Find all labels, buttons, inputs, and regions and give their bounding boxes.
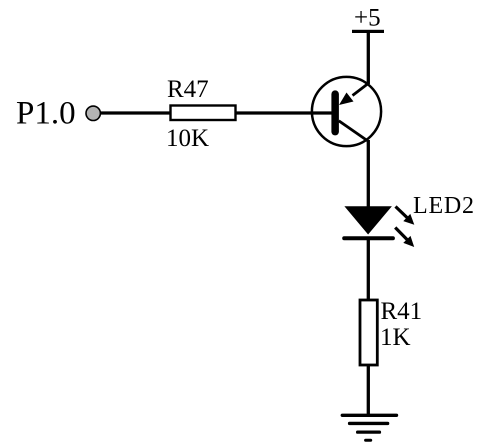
LED2 anode triangle [344, 206, 392, 234]
value 1K [380, 324, 411, 351]
value 10K [166, 125, 209, 152]
transistor Q1 base bar [331, 90, 339, 135]
wire R47 to Q1 base [236, 111, 332, 114]
wire LED2 to R41 [367, 240, 370, 300]
svg-text:LED2: LED2 [413, 193, 475, 219]
power label +5 [354, 5, 381, 32]
transistor Q1 body circle [312, 77, 381, 146]
wire P1.0 to R47 [101, 111, 172, 114]
transistor Q1 emitter line with PNP arrow [339, 83, 369, 105]
resistor R41 [360, 300, 377, 365]
wire R41 to ground [367, 365, 370, 415]
LED2 cathode bar [342, 236, 395, 240]
svg-text:1K: 1K [380, 324, 411, 351]
transistor Q1 collector line [339, 121, 369, 142]
ground [341, 414, 399, 442]
resistor R47 [171, 106, 236, 121]
wire +5 to Q1 emitter [367, 31, 370, 84]
node label P1.0 [16, 96, 76, 132]
wire Q1 collector to LED2 [367, 140, 370, 207]
power rail bar [352, 30, 384, 33]
label LED2 [413, 193, 475, 219]
svg-text:R41: R41 [381, 298, 423, 325]
label R47 [167, 76, 209, 103]
svg-text:R47: R47 [167, 76, 209, 103]
svg-text:10K: 10K [166, 125, 209, 152]
LED2 emission arrow 1 [396, 207, 415, 225]
terminal node P1.0 [86, 106, 100, 120]
label R41 [381, 298, 423, 325]
svg-text:+5: +5 [354, 5, 381, 32]
svg-text:P1.0: P1.0 [16, 96, 76, 132]
LED2 emission arrow 2 [395, 228, 414, 248]
